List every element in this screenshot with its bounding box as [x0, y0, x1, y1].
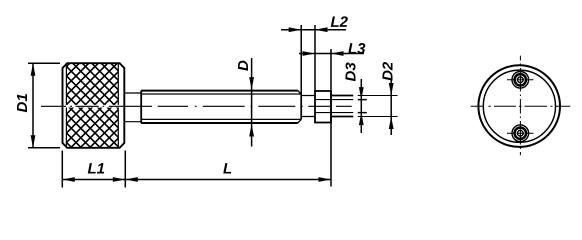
- end view outer circle: [478, 65, 560, 147]
- arrowhead L left: [125, 177, 138, 182]
- dimension D1: [28, 63, 60, 148]
- svg-text:L1: L1: [87, 161, 105, 178]
- head chamfer line right: [117, 63, 119, 148]
- arrowhead D1 top: [31, 63, 36, 75]
- arrowhead D3 top: [359, 87, 364, 100]
- shaft minor (core) lines: [141, 94, 301, 119]
- arrowhead L3 left: [303, 51, 316, 56]
- thread start vertical: [140, 91, 142, 124]
- dimension L: [125, 179, 331, 181]
- shaft OD lines: [141, 91, 298, 123]
- D2 extension lines: [358, 96, 398, 117]
- shoulder L3: [315, 91, 331, 123]
- arrowhead L1 left: [62, 177, 75, 182]
- arrowhead D1 bottom: [31, 135, 36, 148]
- svg-text:L2: L2: [330, 14, 348, 31]
- dimension D2: [390, 80, 392, 135]
- shaft end chamfer: [298, 91, 302, 124]
- svg-text:D1: D1: [14, 93, 31, 112]
- arrowhead D2 top: [389, 83, 394, 96]
- bottom screw hole: [507, 125, 534, 142]
- end view vertical centerline: [519, 56, 521, 156]
- dimension L2: [281, 25, 346, 94]
- arrowhead D2 bottom: [389, 117, 394, 130]
- arrowhead L right: [319, 177, 332, 182]
- arrowhead D bottom: [249, 124, 254, 137]
- svg-text:L: L: [223, 161, 232, 178]
- arrowhead L2 left: [289, 27, 302, 32]
- knurl fill: [66, 63, 118, 148]
- dimension L1: [62, 151, 125, 188]
- top screw hole: [507, 72, 534, 89]
- end view horizontal centerline: [471, 105, 571, 107]
- undercut L2: [301, 96, 315, 117]
- svg-text:D2: D2: [379, 61, 396, 81]
- head chamfer line left: [65, 63, 67, 148]
- shaft end face: [300, 94, 302, 119]
- pin OD lines: [331, 96, 353, 117]
- svg-text:L3: L3: [348, 41, 366, 58]
- arrowhead D3 bottom: [359, 113, 364, 126]
- white halo for centerline across knurl: [64, 105, 124, 108]
- centerline side view: [41, 105, 352, 107]
- svg-text:D3: D3: [342, 62, 359, 82]
- dimension D3: [358, 79, 367, 133]
- head D1 outline: [63, 63, 125, 148]
- arrowhead L2 right: [315, 27, 328, 32]
- dimension L3: [299, 49, 364, 187]
- dimension D: [251, 58, 253, 147]
- arrowhead D top: [249, 77, 254, 90]
- end view inner circle: [483, 70, 555, 142]
- arrowhead L1 right: [113, 177, 126, 182]
- neck under head: [124, 93, 141, 122]
- arrowhead L3 right: [331, 51, 344, 56]
- svg-text:D: D: [235, 60, 252, 71]
- tip minor lines: [315, 100, 353, 113]
